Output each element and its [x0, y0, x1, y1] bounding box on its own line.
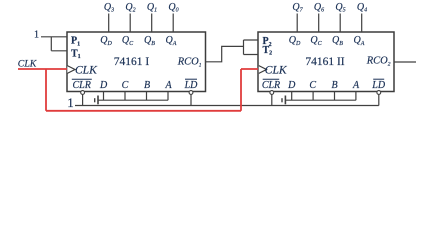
svg-text:1: 1	[67, 95, 74, 110]
svg-text:D: D	[287, 80, 296, 91]
svg-text:A: A	[352, 80, 360, 91]
svg-text:CLK: CLK	[18, 59, 37, 70]
svg-text:C: C	[309, 80, 316, 91]
svg-text:RCO1: RCO1	[177, 56, 202, 68]
svg-text:1: 1	[34, 30, 39, 41]
svg-text:LD: LD	[371, 80, 386, 91]
svg-text:RCO2: RCO2	[366, 55, 391, 67]
svg-text:CLK: CLK	[75, 64, 98, 76]
svg-text:A: A	[165, 80, 173, 91]
svg-text:C: C	[122, 80, 129, 91]
svg-text:74161 I: 74161 I	[114, 56, 150, 68]
svg-text:CLR: CLR	[262, 80, 280, 91]
svg-text:74161 II: 74161 II	[305, 56, 344, 68]
svg-text:LD: LD	[184, 80, 199, 91]
svg-text:B: B	[144, 80, 150, 91]
svg-text:D: D	[99, 80, 108, 91]
svg-text:CLR: CLR	[73, 80, 91, 91]
svg-text:B: B	[332, 80, 338, 91]
svg-text:CLK: CLK	[265, 64, 288, 76]
